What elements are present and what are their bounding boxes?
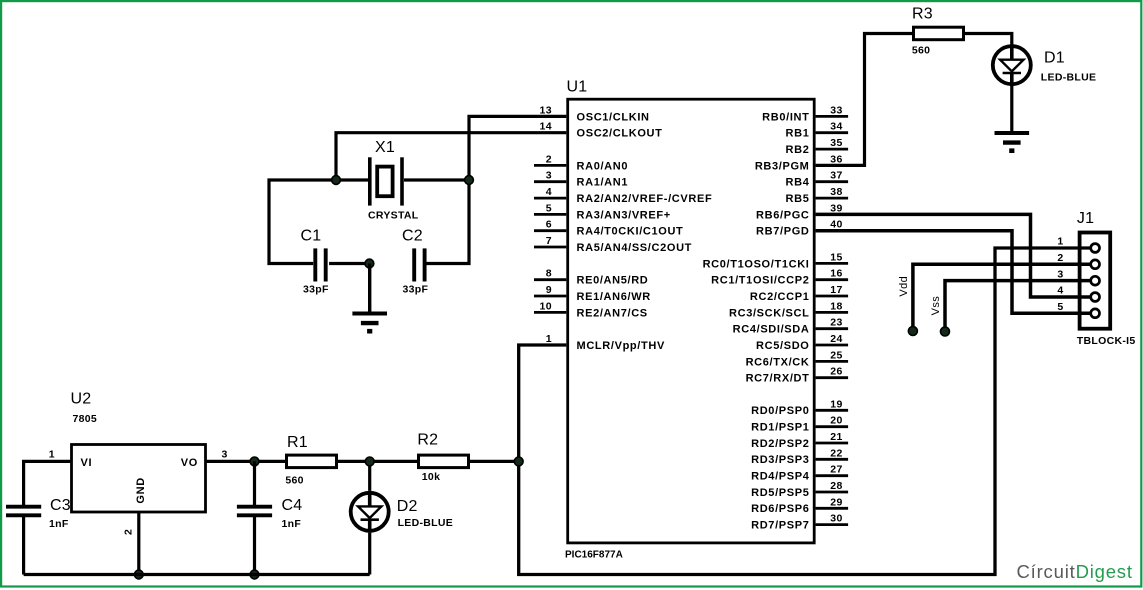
net Vdd stub to J1 terminal 2 [898, 264, 1091, 331]
svg-text:R1: R1 [287, 434, 308, 451]
svg-text:10: 10 [540, 300, 552, 312]
svg-text:24: 24 [830, 333, 842, 345]
svg-text:MCLR/Vpp/THV: MCLR/Vpp/THV [577, 340, 665, 352]
op U1 PIC16F877A microcontroller body [565, 79, 814, 561]
U1 pin 30 (RD7/PSP7) [751, 513, 848, 532]
svg-text:RB4: RB4 [786, 177, 810, 189]
svg-text:RD4/PSP4: RD4/PSP4 [751, 471, 810, 483]
svg-text:2: 2 [546, 153, 552, 165]
U1 pin 18 (RC3/SCK/SCL) [729, 300, 848, 319]
U1 pin 28 (RD5/PSP5) [751, 480, 848, 499]
U1 pin 22 (RD3/PSP3) [751, 447, 848, 466]
crystal X1 [368, 139, 419, 222]
svg-text:560: 560 [285, 475, 303, 487]
node crystal left junction [332, 176, 341, 185]
svg-text:560: 560 [912, 45, 930, 57]
net Vss stub to J1 terminal 3 [930, 281, 1091, 332]
U1 pin 21 (RD2/PSP2) [751, 431, 848, 450]
svg-text:RB0/INT: RB0/INT [762, 111, 809, 123]
U1 pin 8 (RE0/AN5/RD) [534, 268, 648, 287]
op U2 7805 regulator body [71, 391, 206, 513]
svg-text:RE2/AN7/CS: RE2/AN7/CS [577, 307, 648, 319]
svg-text:4: 4 [546, 186, 552, 198]
svg-text:RB2: RB2 [786, 144, 810, 156]
svg-text:LED-BLUE: LED-BLUE [1041, 72, 1096, 84]
wire crystal row left segment [336, 178, 368, 181]
wire R1 to D2 node [338, 460, 417, 463]
svg-text:RA5/AN4/SS/C2OUT: RA5/AN4/SS/C2OUT [577, 242, 693, 254]
svg-text:38: 38 [830, 186, 842, 198]
connector J1 TBLOCK-I5 [1077, 210, 1136, 347]
svg-text:OSC2/CLKOUT: OSC2/CLKOUT [577, 128, 663, 140]
U1 pin 2 (RA0/AN0) [534, 153, 628, 172]
svg-text:9: 9 [546, 284, 552, 296]
wire C1 to ground node [329, 262, 369, 265]
CircuitDigest logo [1017, 561, 1133, 582]
svg-text:29: 29 [830, 496, 842, 508]
svg-text:RD5/PSP5: RD5/PSP5 [751, 487, 809, 499]
svg-text:RC1/T1OSI/CCP2: RC1/T1OSI/CCP2 [711, 275, 809, 287]
svg-text:13: 13 [540, 104, 552, 116]
svg-text:C3: C3 [50, 497, 71, 514]
svg-text:C2: C2 [402, 228, 423, 245]
svg-text:RA0/AN0: RA0/AN0 [577, 160, 629, 172]
node Vss terminal dot [941, 327, 950, 336]
U1 pin 19 (RD0/PSP0) [751, 398, 848, 417]
svg-text:18: 18 [830, 300, 842, 312]
U1 pin 5 (RA3/AN3/VREF+) [534, 202, 671, 221]
resistor R1 560 [285, 434, 336, 487]
svg-text:34: 34 [830, 121, 842, 133]
svg-text:4: 4 [1057, 285, 1063, 297]
wire crystal row right segment [404, 178, 469, 181]
svg-text:RD7/PSP7: RD7/PSP7 [751, 520, 809, 532]
svg-text:RC3/SCK/SCL: RC3/SCK/SCL [729, 307, 810, 319]
svg-text:LED-BLUE: LED-BLUE [398, 517, 453, 529]
resistor R3 560 [912, 6, 964, 57]
svg-text:RE1/AN6/WR: RE1/AN6/WR [577, 291, 651, 303]
svg-text:RC2/CCP1: RC2/CCP1 [750, 291, 810, 303]
svg-text:28: 28 [830, 480, 842, 492]
J1 terminal 1 [1057, 236, 1099, 253]
svg-text:RB7/PGD: RB7/PGD [756, 226, 809, 238]
svg-text:21: 21 [830, 431, 842, 443]
svg-text:1: 1 [49, 448, 55, 460]
U2 pin 3 (VO) wire to R1 [206, 448, 286, 461]
wire R2 to MCLR vertical [470, 460, 519, 463]
U2 pin 2 (GND) wire down [123, 512, 139, 575]
wire MCLR pin1 to R2 and bottom rail [519, 248, 1091, 575]
svg-text:20: 20 [830, 415, 842, 427]
svg-text:RC5/SDO: RC5/SDO [756, 340, 809, 352]
svg-text:OSC1/CLKIN: OSC1/CLKIN [577, 111, 650, 123]
svg-text:17: 17 [830, 284, 842, 296]
svg-text:RC6/TX/CK: RC6/TX/CK [746, 356, 810, 368]
capacitor C2 33pF [402, 228, 428, 296]
svg-text:23: 23 [830, 317, 842, 329]
U1 pin 40 (RB7/PGD) [756, 219, 843, 238]
wire pin36 RB3/PGM to R3 [816, 34, 912, 166]
svg-text:U1: U1 [567, 79, 588, 96]
svg-text:RA3/AN3/VREF+: RA3/AN3/VREF+ [577, 209, 671, 221]
svg-text:RC4/SDI/SDA: RC4/SDI/SDA [733, 324, 810, 336]
wire D2 cathode to rail corner [368, 533, 371, 575]
U1 pin 20 (RD1/PSP1) [751, 415, 848, 434]
svg-text:33pF: 33pF [403, 284, 429, 296]
svg-text:33: 33 [830, 104, 842, 116]
J1 terminal 5 [1057, 301, 1099, 318]
svg-text:1: 1 [1057, 236, 1063, 248]
svg-text:Vdd: Vdd [898, 276, 910, 297]
svg-text:CRYSTAL: CRYSTAL [368, 210, 419, 222]
svg-text:5: 5 [546, 202, 552, 214]
U1 pin 25 (RC6/TX/CK) [746, 349, 849, 368]
node C4 rail junction [250, 570, 259, 579]
svg-text:J1: J1 [1077, 210, 1094, 227]
wire pin40 RB7/PGD to J1 terminal 5 [816, 231, 1091, 314]
U1 pin 14 (OSC2/CLKOUT) [540, 121, 663, 140]
U1 pin 29 (RD6/PSP6) [751, 496, 848, 515]
svg-text:RC7/RX/DT: RC7/RX/DT [746, 373, 810, 385]
wire bottom rail left section [24, 573, 370, 576]
svg-text:6: 6 [546, 219, 552, 231]
svg-text:30: 30 [830, 513, 842, 525]
U1 pin 39 (RB6/PGC) [756, 202, 843, 221]
svg-text:RD0/PSP0: RD0/PSP0 [751, 405, 809, 417]
svg-text:D1: D1 [1044, 50, 1065, 67]
node VO / C4 junction [250, 457, 259, 466]
J1 terminal 4 [1057, 285, 1099, 302]
capacitor C4 1nF [237, 497, 302, 530]
U1 pin 10 (RE2/AN7/CS) [534, 300, 648, 319]
svg-text:D2: D2 [397, 498, 418, 515]
svg-text:PIC16F877A: PIC16F877A [565, 550, 623, 561]
J1 terminal 2 [1057, 252, 1099, 269]
svg-text:35: 35 [830, 137, 842, 149]
svg-text:7805: 7805 [73, 413, 98, 425]
svg-text:1nF: 1nF [49, 518, 69, 530]
U1 pin 17 (RC2/CCP1) [750, 284, 848, 303]
U1 pin 38 (RB5) [786, 186, 849, 205]
U1 pin 1 (MCLR/Vpp/THV) [546, 333, 665, 352]
svg-text:VO: VO [181, 457, 198, 469]
ground (crystal) [352, 264, 387, 334]
U1 pin 27 (RD4/PSP4) [751, 464, 848, 483]
U1 pin 6 (RA4/T0CKI/C1OUT) [534, 219, 683, 238]
node C1-C2 ground junction [365, 259, 374, 268]
wire D1 cathode to ground [1010, 86, 1013, 131]
capacitor C3 1nF [6, 497, 71, 530]
U1 pin 33 (RB0/INT) [762, 104, 848, 123]
U1 pin 7 (RA5/AN4/SS/C2OUT) [534, 235, 692, 254]
U1 pin 34 (RB1) [786, 121, 849, 140]
svg-text:14: 14 [540, 121, 552, 133]
U1 pin 36 (RB3/PGM) [755, 153, 843, 172]
svg-text:22: 22 [830, 447, 842, 459]
resistor R2 10k [417, 432, 468, 483]
svg-text:27: 27 [830, 464, 842, 476]
node crystal right junction [465, 176, 474, 185]
U1 pin 15 (RC0/T1OSO/T1CKI) [703, 251, 849, 270]
svg-text:5: 5 [1057, 301, 1063, 313]
wire pin39 RB6/PGC to J1 terminal 4 [816, 214, 1091, 297]
wire left loop down to C1 [269, 180, 336, 264]
svg-text:37: 37 [830, 170, 842, 182]
svg-text:10k: 10k [422, 471, 440, 483]
wire C4 bottom to rail [253, 515, 256, 574]
svg-text:RA4/T0CKI/C1OUT: RA4/T0CKI/C1OUT [577, 226, 684, 238]
svg-text:CírcuitDigest: CírcuitDigest [1017, 561, 1133, 582]
svg-text:3: 3 [546, 170, 552, 182]
svg-text:25: 25 [830, 349, 842, 361]
svg-text:33pF: 33pF [303, 284, 329, 296]
svg-text:RD6/PSP6: RD6/PSP6 [751, 503, 809, 515]
U2 pin 1 (VI) wire to C3 [24, 448, 72, 506]
U1 pin 23 (RC4/SDI/SDA) [733, 317, 848, 336]
svg-text:RD3/PSP3: RD3/PSP3 [751, 454, 809, 466]
U1 pin 37 (RB4) [786, 170, 849, 189]
svg-text:3: 3 [1057, 268, 1063, 280]
svg-text:VI: VI [81, 457, 93, 469]
svg-text:RB1: RB1 [786, 128, 810, 140]
node R1-R2-D2 junction [365, 457, 374, 466]
svg-text:16: 16 [830, 268, 842, 280]
svg-text:1nF: 1nF [282, 518, 302, 530]
node Vdd terminal dot [908, 327, 917, 336]
diode D1 LED-BLUE [993, 44, 1096, 86]
wire D2 anode from rail [368, 461, 371, 490]
U1 pin 24 (RC5/SDO) [756, 333, 848, 352]
wire OSC2 pin14 to crystal left node [336, 133, 566, 180]
svg-text:15: 15 [830, 251, 842, 263]
U1 pin 16 (RC1/T1OSI/CCP2) [711, 268, 848, 287]
U1 pin 4 (RA2/AN2/VREF-/CVREF) [534, 186, 712, 205]
svg-text:X1: X1 [375, 139, 395, 156]
wire right loop down to C2 [426, 180, 469, 264]
wire OSC1 pin13 to crystal right node [469, 116, 566, 180]
svg-text:RB5: RB5 [786, 193, 810, 205]
svg-text:8: 8 [546, 268, 552, 280]
wire C3 bottom to rail [22, 515, 25, 574]
svg-text:RA2/AN2/VREF-/CVREF: RA2/AN2/VREF-/CVREF [577, 193, 713, 205]
svg-text:39: 39 [830, 202, 842, 214]
svg-text:2: 2 [123, 529, 135, 535]
svg-text:26: 26 [830, 366, 842, 378]
diode D2 LED-BLUE [351, 491, 453, 533]
U1 pin 35 (RB2) [786, 137, 849, 156]
ground (D1) [995, 133, 1030, 153]
svg-text:1: 1 [546, 333, 552, 345]
svg-text:RD2/PSP2: RD2/PSP2 [751, 438, 809, 450]
svg-text:Vss: Vss [930, 296, 942, 316]
svg-text:U2: U2 [71, 391, 92, 408]
U1 pin 26 (RC7/RX/DT) [746, 366, 849, 385]
svg-text:RE0/AN5/RD: RE0/AN5/RD [577, 275, 649, 287]
U1 pin 13 (OSC1/CLKIN) [540, 104, 650, 123]
J1 terminal 3 [1057, 268, 1099, 285]
svg-text:RC0/T1OSO/T1CKI: RC0/T1OSO/T1CKI [703, 258, 810, 270]
svg-text:3: 3 [222, 448, 228, 460]
U1 pin 9 (RE1/AN6/WR) [534, 284, 651, 303]
svg-text:RB3/PGM: RB3/PGM [755, 160, 810, 172]
wire C4 top [253, 461, 256, 506]
svg-text:7: 7 [546, 235, 552, 247]
wire R3 to D1 anode [965, 34, 1012, 45]
capacitor C1 33pF [301, 228, 329, 296]
U1 pin 3 (RA1/AN1) [534, 170, 628, 189]
svg-text:C1: C1 [301, 228, 322, 245]
node R2/MCLR junction [514, 457, 523, 466]
svg-text:RB6/PGC: RB6/PGC [756, 209, 809, 221]
svg-text:RD1/PSP1: RD1/PSP1 [751, 422, 809, 434]
svg-text:GND: GND [135, 477, 147, 503]
svg-text:2: 2 [1057, 252, 1063, 264]
node GND pin rail junction [134, 570, 143, 579]
svg-text:TBLOCK-I5: TBLOCK-I5 [1077, 335, 1136, 347]
svg-text:19: 19 [830, 398, 842, 410]
svg-text:R3: R3 [912, 6, 933, 23]
svg-text:R2: R2 [417, 432, 438, 449]
svg-text:36: 36 [830, 153, 842, 165]
svg-text:C4: C4 [282, 497, 303, 514]
svg-text:40: 40 [830, 219, 842, 231]
svg-text:RA1/AN1: RA1/AN1 [577, 177, 629, 189]
